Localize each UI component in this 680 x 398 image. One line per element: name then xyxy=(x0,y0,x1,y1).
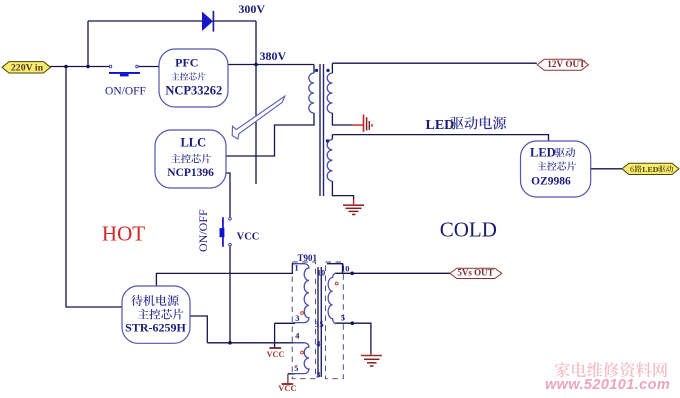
svg-text:www.520101.com: www.520101.com xyxy=(545,377,670,393)
svg-text:VCC: VCC xyxy=(278,383,296,393)
svg-text:STR-6259H: STR-6259H xyxy=(125,321,186,335)
svg-text:5: 5 xyxy=(341,314,345,323)
svg-text:5: 5 xyxy=(294,364,298,373)
svg-text:3: 3 xyxy=(295,314,299,323)
svg-text:LED: LED xyxy=(642,165,658,174)
svg-text:4: 4 xyxy=(316,340,320,349)
svg-text:ON/OFF: ON/OFF xyxy=(105,86,146,98)
svg-text:VCC: VCC xyxy=(237,231,260,242)
svg-text:HOT: HOT xyxy=(102,222,145,246)
svg-text:6: 6 xyxy=(630,165,634,174)
svg-text:380V: 380V xyxy=(260,49,287,63)
svg-text:OZ9986: OZ9986 xyxy=(531,176,571,188)
svg-text:12V OUT: 12V OUT xyxy=(547,59,585,69)
svg-text:ON/OFF: ON/OFF xyxy=(196,209,210,252)
svg-text:3: 3 xyxy=(315,320,319,329)
svg-text:VCC: VCC xyxy=(267,350,285,359)
svg-text:5Vs OUT: 5Vs OUT xyxy=(457,268,493,278)
svg-text:PFC: PFC xyxy=(175,56,198,70)
svg-text:5: 5 xyxy=(320,320,324,329)
svg-text:10: 10 xyxy=(317,269,325,278)
svg-text:10: 10 xyxy=(341,264,349,273)
svg-text:220V in: 220V in xyxy=(11,62,44,73)
svg-text:NCP1396: NCP1396 xyxy=(167,167,214,179)
svg-text:NCP33262: NCP33262 xyxy=(165,84,222,98)
svg-text:COLD: COLD xyxy=(440,217,497,241)
svg-text:LLC: LLC xyxy=(180,136,206,150)
svg-text:1: 1 xyxy=(295,264,299,273)
svg-text:LED: LED xyxy=(530,145,556,159)
svg-text:LED: LED xyxy=(426,118,455,133)
svg-text:4: 4 xyxy=(295,332,299,341)
svg-text:T901: T901 xyxy=(298,253,318,263)
svg-text:3: 3 xyxy=(316,371,320,380)
svg-text:300V: 300V xyxy=(238,2,265,16)
